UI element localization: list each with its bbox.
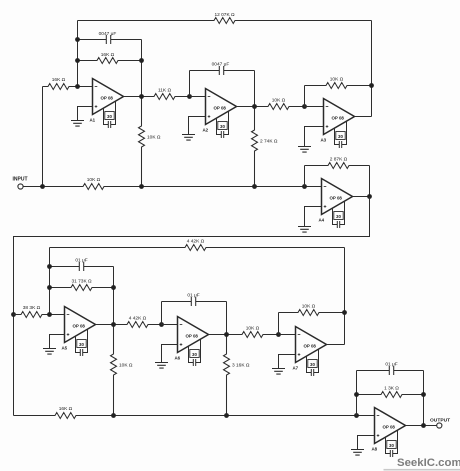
ground of A3 [305, 127, 324, 147]
svg-text:10K Ω: 10K Ω [330, 77, 344, 83]
junction input line at A2 2.74K [252, 184, 257, 189]
wire A7 output [327, 344, 345, 346]
resistor 16K input of A1 [43, 84, 78, 90]
wire A2 cap feedback left vertical [189, 71, 191, 97]
svg-text:30: 30 [192, 352, 197, 357]
wire A7 input to triangle [279, 334, 296, 336]
resistor 1.3K feedback of A8 [357, 392, 424, 398]
op-amp A6 [178, 317, 209, 353]
wire A1 input node to A1 [78, 86, 93, 88]
svg-text:4 42K Ω: 4 42K Ω [129, 316, 147, 322]
junction lower fb res tap [47, 285, 52, 290]
wire feedback-12.07K right vertical down to A3 output [371, 21, 373, 117]
svg-text:38 3K Ω: 38 3K Ω [23, 305, 41, 311]
svg-text:16K Ω: 16K Ω [59, 406, 73, 412]
svg-text:A1: A1 [90, 118, 96, 123]
junction A6 input node [159, 322, 164, 327]
resistor 4.42K feedback (lower) [50, 245, 345, 251]
wire A4 output [353, 196, 370, 198]
svg-text:OP 08: OP 08 [330, 196, 343, 201]
svg-text:OP 08: OP 08 [332, 116, 345, 121]
svg-text:30: 30 [79, 342, 84, 347]
svg-text:3 16K Ω: 3 16K Ω [232, 363, 250, 369]
junction A7 feedback right [342, 310, 347, 315]
svg-text:A6: A6 [175, 356, 181, 361]
svg-text:10K Ω: 10K Ω [87, 177, 101, 183]
svg-text:30: 30 [220, 124, 225, 129]
junction input line at A1 10K [139, 184, 144, 189]
wire A6 output [209, 334, 227, 336]
svg-text:0047 μF: 0047 μF [99, 31, 117, 37]
svg-text:16K Ω: 16K Ω [52, 77, 66, 83]
wire A5 input node to A5 [50, 314, 65, 316]
resistor 4.42K A5 to A6 [114, 322, 162, 328]
scan artifact bottom strip [384, 469, 460, 471]
svg-text:SeekIC.com: SeekIC.com [397, 457, 460, 469]
resistor 2.74K from A2 output down to input line [252, 107, 258, 187]
svg-text:30: 30 [338, 134, 343, 139]
wire A6 input to triangle [162, 324, 178, 326]
wire A5 output [96, 324, 114, 326]
resistor 12.07K feedback (top) [78, 18, 372, 24]
ground of A6 [162, 345, 178, 363]
op-amp A8 [375, 408, 406, 444]
wire A2 input to triangle [190, 96, 206, 98]
junction A4 output node [367, 194, 372, 199]
op-amp A1 [93, 79, 124, 115]
op-amp A2 [206, 89, 237, 125]
svg-text:10K Ω: 10K Ω [119, 363, 133, 369]
resistor 11K A1 to A2 [142, 94, 190, 100]
ground of A5 [50, 335, 65, 349]
wire A3 output [355, 116, 372, 118]
svg-text:A2: A2 [203, 128, 209, 133]
wire input line to A4 [142, 186, 322, 188]
svg-text:1 3K Ω: 1 3K Ω [384, 386, 399, 392]
compensation capacitor 30pF of A5 [76, 329, 88, 356]
wire A4 output routed to lower section input [14, 197, 370, 416]
wire A3 feedback left vertical [304, 86, 306, 107]
junction input line at A1 branch [40, 184, 45, 189]
resistor 10K A2 to A3 [255, 104, 305, 110]
capacitor .01uF feedback of A5 [50, 262, 114, 271]
junction A3 input node [302, 104, 307, 109]
svg-text:12 07K Ω: 12 07K Ω [214, 12, 235, 18]
svg-text:4 42K Ω: 4 42K Ω [187, 239, 205, 245]
svg-text:A7: A7 [293, 366, 299, 371]
svg-text:INPUT: INPUT [13, 177, 28, 183]
resistor 3.16K from A6 output down to bottom line [224, 335, 230, 416]
junction A8 fb res right [421, 392, 426, 397]
compensation capacitor 30pF of A6 [189, 339, 201, 366]
junction A8 fb res left [354, 392, 359, 397]
terminal OUTPUT [437, 423, 442, 428]
compensation capacitor 30pF of A1 [104, 101, 116, 128]
svg-text:2 87K Ω: 2 87K Ω [330, 157, 348, 163]
wire A2 cap feedback right vertical [254, 71, 256, 107]
svg-text:30: 30 [336, 214, 341, 219]
svg-text:OP 08: OP 08 [214, 106, 227, 111]
resistor 10K input line [43, 184, 142, 190]
wire A6 cap feedback left vertical [161, 302, 163, 325]
svg-text:31 73K Ω: 31 73K Ω [71, 279, 92, 285]
wire A1 feedback right vertical [141, 40, 143, 97]
svg-text:2 74K Ω: 2 74K Ω [260, 139, 278, 145]
svg-text:01 μF: 01 μF [187, 293, 199, 299]
resistor 16K bottom line [14, 413, 114, 419]
wire A3 input to triangle [305, 106, 324, 108]
resistor 10K feedback of A7 [279, 310, 345, 316]
compensation capacitor 30pF of A7 [307, 349, 319, 376]
wire A6 cap feedback right vertical [226, 302, 228, 335]
wire A4 feedback right vertical [369, 166, 371, 198]
resistor 10K from A1 output down to input line [139, 97, 145, 187]
ground of A7 [279, 355, 296, 369]
junction bottom line at A6 3.16K [224, 413, 229, 418]
capacitor .01uF feedback of A8 [357, 366, 424, 375]
resistor 16K feedback of A1 [78, 58, 142, 64]
svg-text:01 μF: 01 μF [75, 258, 87, 264]
compensation capacitor 30pF of A3 [335, 121, 347, 148]
svg-text:OP 08: OP 08 [186, 334, 199, 339]
junction A6 output node [224, 332, 229, 337]
wire A7 feedback left vertical [278, 313, 280, 335]
svg-text:30: 30 [310, 362, 315, 367]
svg-text:11K Ω: 11K Ω [158, 88, 172, 94]
junction A2 output node [252, 104, 257, 109]
wire A4 feedback left vertical [304, 166, 306, 187]
wire 4.42K feedback left vertical (A5 input node) [49, 248, 51, 315]
junction A5 output node [111, 322, 116, 327]
svg-text:16K Ω: 16K Ω [101, 52, 115, 58]
junction A1 fb res right [139, 58, 144, 63]
junction A8 output node [421, 423, 426, 428]
compensation capacitor 30pF of A2 [217, 111, 229, 138]
svg-text:OP 08: OP 08 [101, 96, 114, 101]
svg-text:10K Ω: 10K Ω [147, 135, 161, 141]
junction A1 fb cap tap [75, 37, 80, 42]
capacitor .01uF feedback of A6 [162, 297, 227, 306]
svg-text:10K Ω: 10K Ω [302, 304, 316, 310]
wire A2 output [237, 106, 255, 108]
op-amp A4 [322, 179, 353, 215]
svg-text:A8: A8 [372, 447, 378, 452]
junction A2 input node [187, 94, 192, 99]
svg-text:0047 μF: 0047 μF [212, 62, 230, 68]
capacitor .0047uF feedback of A1 [78, 35, 142, 44]
junction A4 input node [302, 184, 307, 189]
resistor 10K A6 to A7 [227, 332, 279, 338]
svg-text:10K Ω: 10K Ω [272, 98, 286, 104]
svg-text:A5: A5 [62, 346, 68, 351]
resistor 31.73K feedback of A5 [50, 285, 114, 291]
svg-text:OP 08: OP 08 [383, 425, 396, 430]
op-amp A5 [65, 307, 96, 343]
capacitor .0047uF feedback of A2 [190, 66, 255, 75]
junction A8 input node [354, 413, 359, 418]
svg-text:OP 08: OP 08 [73, 324, 86, 329]
ground of A8 [358, 436, 375, 450]
junction lower fb cap tap [47, 264, 52, 269]
wire 4.42K feedback right vertical to A7 output [344, 248, 346, 345]
wire A5 feedback right vertical [113, 267, 115, 325]
junction A7 input node [276, 332, 281, 337]
op-amp A7 [296, 327, 327, 363]
svg-text:10K Ω: 10K Ω [246, 326, 260, 332]
terminal INPUT [18, 184, 23, 189]
wire A8 output [406, 425, 437, 427]
junction lower-left at 38.3K [11, 312, 16, 317]
op-amp A3 [324, 99, 355, 135]
resistor 2.87K feedback of A4 [305, 163, 370, 169]
ground of A2 [189, 117, 206, 135]
wire A1 output [124, 96, 142, 98]
junction A5 fb res right [111, 285, 116, 290]
junction A3 feedback right [369, 83, 374, 88]
ground of A4 [305, 207, 322, 227]
resistor 10K feedback of A3 [305, 83, 372, 89]
compensation capacitor 30pF of A4 [333, 201, 345, 228]
svg-text:30: 30 [389, 443, 394, 448]
compensation capacitor 30pF of A8 [386, 430, 398, 457]
resistor 10K from A5 output down to bottom line [111, 325, 117, 416]
wire bottom line to A8 [114, 415, 375, 417]
wire A8 feedback right vertical [423, 371, 425, 426]
junction A5 input node [47, 312, 52, 317]
wire A8 feedback left vertical [356, 371, 358, 416]
wire from INPUT terminal [23, 186, 42, 188]
svg-text:30: 30 [107, 114, 112, 119]
svg-text:OP 08: OP 08 [304, 344, 317, 349]
svg-text:A3: A3 [321, 138, 327, 143]
ground of A1 [78, 107, 93, 121]
resistor 38.3K input of A5 [14, 312, 50, 318]
junction A1 fb res tap [75, 58, 80, 63]
svg-text:A4: A4 [319, 218, 325, 223]
svg-text:01 μF: 01 μF [385, 362, 397, 368]
junction A1 input node [75, 84, 80, 89]
wire input branch vertical to A1 [42, 87, 44, 187]
wire feedback-12.07K left vertical (node A1 input) [77, 21, 79, 87]
junction A1 output node [139, 94, 144, 99]
junction bottom line at A5 10K [111, 413, 116, 418]
